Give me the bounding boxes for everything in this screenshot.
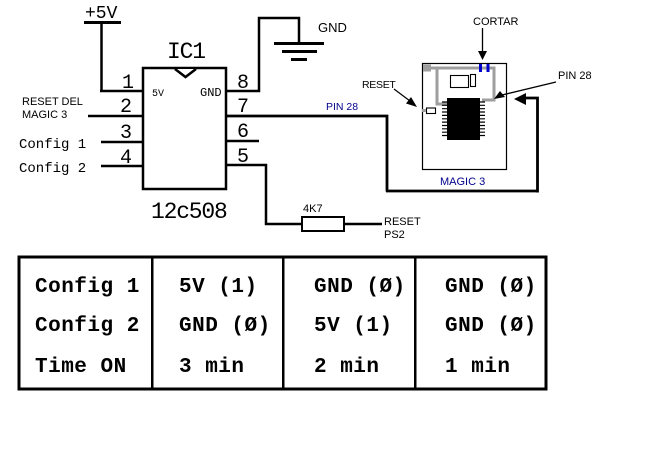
svg-text:RESET DEL: RESET DEL: [22, 96, 83, 108]
chip pins right: [480, 102, 485, 136]
board trace (gray): [427, 68, 494, 104]
wire pin 4: [101, 165, 143, 168]
wire resistor to RESET PS2: [344, 223, 382, 226]
wire +5V to pin 1: [100, 23, 103, 91]
board pad (gray square): [423, 65, 431, 72]
svg-text:Config 2: Config 2: [19, 161, 86, 177]
table divider 1: [151, 257, 154, 389]
wire pin 2: [88, 115, 143, 118]
svg-text:1: 1: [122, 72, 134, 95]
svg-text:Config 1: Config 1: [35, 276, 140, 299]
svg-text:Config 2: Config 2: [35, 315, 140, 338]
wire pin 8 to ground: [226, 18, 299, 91]
svg-text:PIN 28: PIN 28: [558, 70, 592, 82]
svg-text:IC1: IC1: [167, 39, 205, 65]
board small component: [471, 75, 476, 87]
+5V supply bar: [84, 21, 121, 24]
table divider 2: [282, 257, 285, 389]
svg-text:1 min: 1 min: [445, 356, 511, 379]
board chip (black): [447, 98, 480, 140]
svg-text:CORTAR: CORTAR: [473, 16, 518, 28]
svg-text:MAGIC 3: MAGIC 3: [22, 109, 67, 121]
svg-text:GND: GND: [318, 20, 347, 35]
IC1 notch: [175, 69, 196, 77]
svg-text:5V: 5V: [152, 89, 164, 100]
connector stub gray: [422, 109, 426, 112]
cut marks (blue): [479, 64, 482, 72]
chip pins left: [442, 102, 447, 136]
svg-text:2 min: 2 min: [314, 356, 380, 379]
ground symbol: [274, 42, 324, 45]
arrow RESET: [394, 89, 414, 104]
svg-text:RESET: RESET: [362, 79, 396, 91]
svg-text:12c508: 12c508: [151, 199, 227, 225]
arrowhead into magic3 right side: [514, 93, 526, 105]
svg-text:4K7: 4K7: [303, 203, 323, 215]
wire pin 1: [100, 90, 143, 93]
svg-text:PIN 28: PIN 28: [326, 101, 358, 113]
svg-text:5V (1): 5V (1): [314, 315, 393, 338]
svg-text:GND (Ø): GND (Ø): [314, 276, 406, 299]
svg-text:GND: GND: [200, 86, 222, 100]
svg-text:Config 1: Config 1: [19, 137, 86, 153]
svg-text:GND (Ø): GND (Ø): [445, 315, 537, 338]
svg-text:RESET: RESET: [384, 216, 421, 228]
table outer border: [19, 257, 546, 389]
resistor 4K7: [302, 217, 344, 231]
svg-text:GND (Ø): GND (Ø): [445, 276, 537, 299]
wire pin 5 to resistor: [226, 165, 302, 224]
svg-text:Time ON: Time ON: [35, 356, 127, 379]
op-amp IC1 body: [143, 68, 226, 189]
svg-text:GND (Ø): GND (Ø): [179, 315, 271, 338]
wire pin 7 net to magic3: [226, 98, 538, 193]
table divider 3: [414, 257, 417, 389]
wire pin 3: [101, 141, 143, 144]
svg-text:PS2: PS2: [384, 229, 405, 241]
MAGIC 3 board outline: [423, 64, 507, 170]
wire pin 6 stub: [226, 140, 259, 143]
svg-text:MAGIC 3: MAGIC 3: [440, 176, 485, 188]
arrow PIN 28: [498, 82, 556, 96]
board component rectangle: [451, 76, 469, 88]
svg-text:3 min: 3 min: [179, 356, 245, 379]
arrow CORTAR: [482, 28, 484, 53]
svg-text:5V (1): 5V (1): [179, 276, 258, 299]
board connector left: [427, 108, 436, 114]
